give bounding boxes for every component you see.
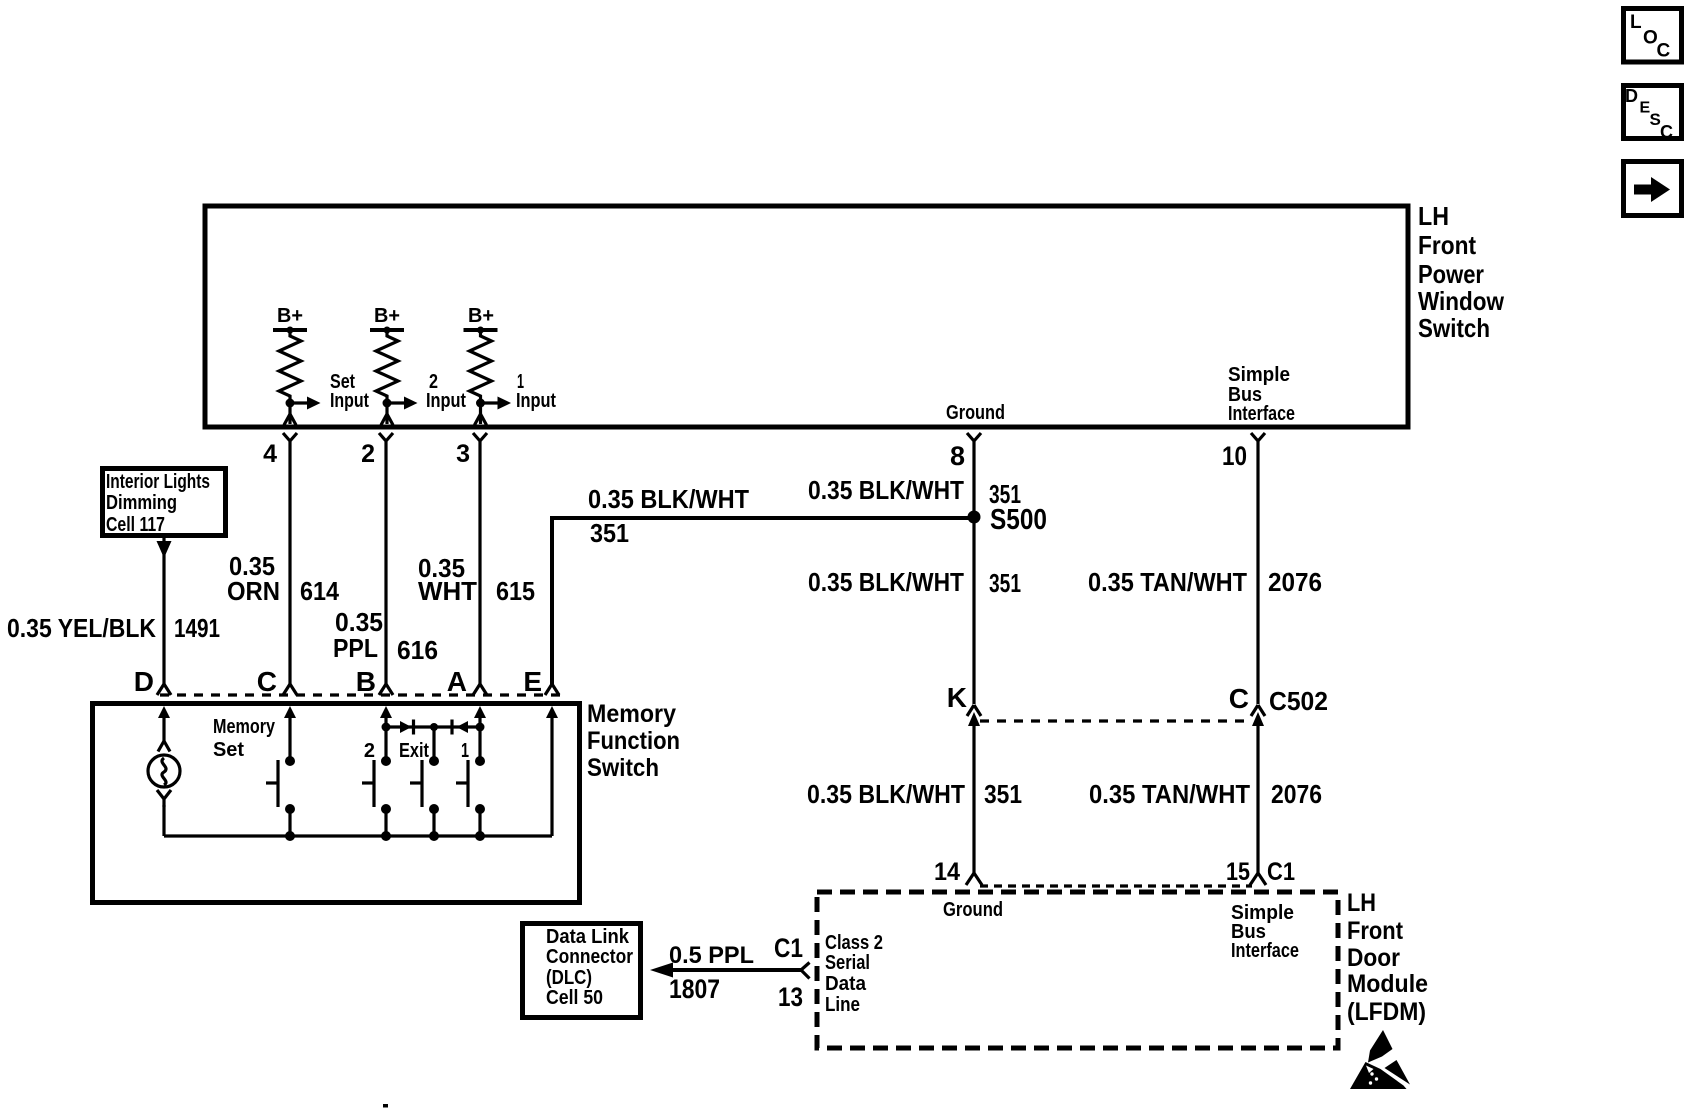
svg-text:E: E (523, 666, 542, 697)
svg-text:Interface: Interface (1231, 940, 1299, 962)
svg-text:C502: C502 (1269, 686, 1328, 716)
svg-text:Module: Module (1347, 970, 1428, 998)
svg-text:WHT: WHT (418, 576, 477, 606)
svg-text:Front: Front (1347, 917, 1404, 945)
svg-text:2076: 2076 (1271, 779, 1322, 809)
svg-text:1491: 1491 (174, 613, 220, 643)
svg-text:Line: Line (825, 994, 860, 1016)
svg-text:ORN: ORN (227, 576, 280, 606)
svg-text:615: 615 (496, 576, 535, 606)
svg-text:Data Link: Data Link (546, 926, 630, 948)
svg-text:2: 2 (364, 740, 375, 762)
svg-text:L: L (1630, 12, 1642, 33)
svg-text:Window: Window (1418, 286, 1505, 316)
svg-text:D: D (1625, 86, 1638, 106)
svg-text:A: A (447, 666, 467, 697)
svg-text:C: C (1660, 122, 1673, 142)
svg-text:Input: Input (426, 390, 466, 412)
svg-text:616: 616 (397, 635, 438, 665)
svg-text:Data: Data (825, 973, 867, 995)
svg-text:351: 351 (590, 518, 629, 548)
svg-text:Power: Power (1418, 259, 1484, 289)
svg-text:LH: LH (1347, 889, 1376, 917)
svg-text:614: 614 (300, 576, 339, 606)
svg-text:C: C (1229, 683, 1249, 714)
svg-text:Serial: Serial (825, 952, 870, 974)
svg-text:B: B (356, 666, 376, 697)
svg-text:Simple: Simple (1228, 364, 1290, 386)
svg-text:1807: 1807 (669, 974, 720, 1004)
svg-text:2: 2 (361, 440, 375, 468)
svg-text:2076: 2076 (1268, 567, 1322, 597)
svg-text:K: K (947, 682, 967, 713)
svg-text:Ground: Ground (943, 899, 1003, 921)
svg-text:C1: C1 (1267, 858, 1295, 886)
svg-text:Connector: Connector (546, 946, 633, 968)
svg-text:351: 351 (984, 779, 1022, 809)
svg-text:C: C (1657, 41, 1671, 62)
svg-text:S500: S500 (990, 504, 1047, 536)
svg-text:Front: Front (1418, 230, 1476, 260)
svg-text:B+: B+ (374, 305, 400, 327)
svg-text:Function: Function (587, 727, 680, 755)
svg-text:0.35 TAN/WHT: 0.35 TAN/WHT (1089, 779, 1250, 809)
svg-text:0.35 YEL/BLK: 0.35 YEL/BLK (7, 613, 156, 643)
svg-text:Input: Input (516, 390, 556, 412)
svg-text:PPL: PPL (333, 633, 378, 663)
svg-text:Memory: Memory (587, 700, 676, 728)
svg-text:Cell 50: Cell 50 (546, 987, 603, 1009)
svg-text:0.35 BLK/WHT: 0.35 BLK/WHT (808, 567, 964, 597)
svg-text:Class 2: Class 2 (825, 932, 883, 954)
svg-text:Exit: Exit (399, 740, 429, 762)
svg-text:0.5 PPL: 0.5 PPL (669, 942, 754, 969)
svg-text:Input: Input (330, 390, 369, 412)
svg-text:Switch: Switch (1418, 313, 1490, 343)
svg-text:D: D (134, 666, 154, 697)
svg-text:1: 1 (461, 740, 469, 762)
svg-text:13: 13 (778, 982, 803, 1012)
svg-text:10: 10 (1222, 441, 1247, 471)
svg-text:(DLC): (DLC) (546, 967, 592, 989)
svg-text:15: 15 (1226, 858, 1250, 886)
svg-text:0.35 TAN/WHT: 0.35 TAN/WHT (1088, 567, 1247, 597)
svg-text:C: C (257, 666, 277, 697)
svg-text:Cell 117: Cell 117 (106, 514, 165, 536)
svg-text:4: 4 (263, 440, 277, 468)
svg-text:Door: Door (1347, 944, 1400, 972)
svg-text:LH: LH (1418, 201, 1449, 231)
svg-text:Dimming: Dimming (106, 492, 177, 514)
svg-text:Interface: Interface (1228, 403, 1295, 425)
svg-text:Ground: Ground (946, 402, 1005, 424)
svg-text:B+: B+ (468, 305, 494, 327)
svg-text:14: 14 (934, 858, 960, 886)
svg-text:(LFDM): (LFDM) (1347, 998, 1426, 1026)
svg-text:Memory: Memory (213, 716, 276, 738)
svg-text:351: 351 (989, 568, 1021, 598)
svg-text:0.35 BLK/WHT: 0.35 BLK/WHT (807, 779, 965, 809)
svg-text:8: 8 (950, 441, 965, 471)
svg-text:3: 3 (456, 440, 470, 468)
svg-text:0.35 BLK/WHT: 0.35 BLK/WHT (588, 484, 749, 514)
svg-text:Interior Lights: Interior Lights (106, 471, 210, 493)
svg-text:Switch: Switch (587, 754, 659, 782)
svg-text:0.35 BLK/WHT: 0.35 BLK/WHT (808, 475, 964, 505)
svg-text:B+: B+ (277, 305, 303, 327)
svg-text:Set: Set (213, 739, 244, 761)
svg-text:C1: C1 (774, 933, 803, 963)
